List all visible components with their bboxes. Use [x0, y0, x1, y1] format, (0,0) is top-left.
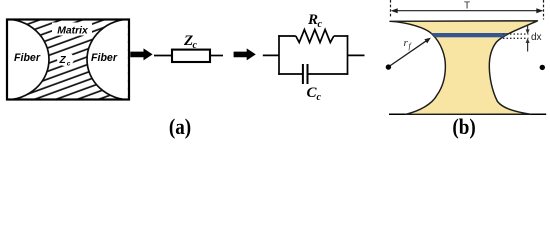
dashed centre line left: [390, 0, 392, 17]
svg-text:T: T: [464, 0, 470, 11]
radius arrow rf: [389, 38, 431, 67]
big arrow 2: [234, 48, 256, 60]
label Rc: [307, 12, 323, 30]
label Cc: [307, 85, 322, 103]
fiber centre dot right: [540, 65, 545, 70]
svg-text:c: c: [317, 92, 322, 103]
svg-text:Z: Z: [59, 55, 67, 66]
bottom rule: [389, 113, 546, 115]
box border: [7, 20, 129, 100]
fiber right (white ellipse): [87, 19, 175, 100]
left vertical wire: [278, 35, 280, 75]
T dimension line: [391, 8, 544, 13]
dx dimension arrows: [526, 26, 530, 52]
svg-text:R: R: [307, 12, 318, 28]
svg-text:c: c: [67, 61, 71, 68]
svg-text:Fiber: Fiber: [91, 52, 118, 64]
left lead wire: [263, 54, 279, 56]
dotted extension lines for dx: [503, 33, 529, 35]
svg-text:Matrix: Matrix: [57, 26, 89, 37]
svg-text:dx: dx: [531, 32, 542, 43]
resistor Rc zigzag: [296, 30, 334, 43]
svg-text:(b): (b): [452, 114, 475, 139]
blue slab dx: [422, 33, 508, 37]
svg-text:c: c: [193, 40, 198, 51]
svg-text:(a): (a): [169, 114, 191, 139]
node Zc in matrix gap: [57, 52, 74, 68]
label rf: [404, 37, 413, 51]
fiber left (white ellipse): [0, 19, 49, 100]
right vertical wire: [347, 35, 349, 75]
dashed centre line right: [543, 0, 545, 20]
svg-text:Fiber: Fiber: [14, 52, 41, 64]
wire right of Zc box: [210, 55, 223, 57]
matrix hatched box: [7, 20, 129, 100]
svg-text:f: f: [409, 42, 413, 51]
svg-text:c: c: [318, 19, 323, 30]
label Zc: [183, 33, 198, 51]
bottom rail wire right: [308, 73, 349, 75]
neck (tan hourglass): [390, 21, 538, 115]
bottom rail wire left: [278, 73, 303, 75]
top rail wire right: [334, 35, 349, 37]
big arrow 1: [130, 48, 152, 60]
wire left of Zc box: [154, 55, 172, 57]
fiber centre dot left: [386, 64, 391, 69]
impedance block Zc: [172, 50, 210, 62]
label Matrix: [52, 23, 92, 37]
top rail wire left: [278, 35, 296, 37]
right lead wire: [348, 54, 365, 56]
capacitor Cc plates: [302, 64, 304, 84]
